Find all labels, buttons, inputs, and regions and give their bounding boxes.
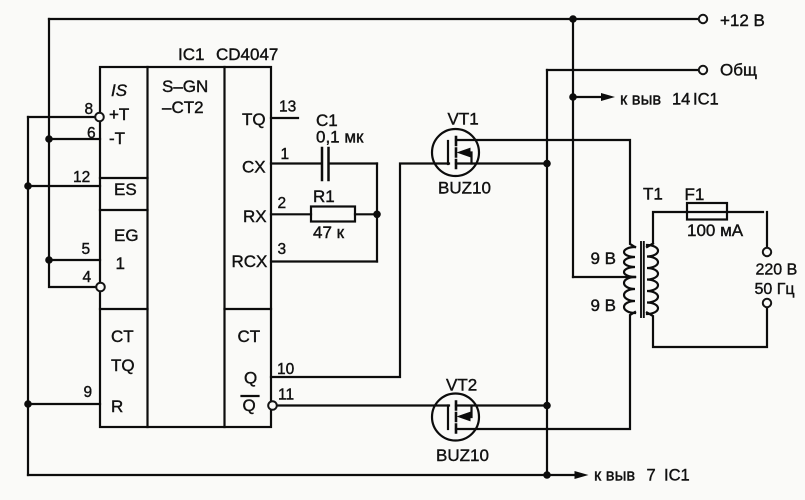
junction node pin14 arrow	[569, 93, 577, 101]
transformer T1 secondary winding	[647, 245, 658, 314]
wire pin 11 to VT2 gate	[277, 404, 450, 406]
svg-text:RX: RX	[243, 207, 267, 226]
wire pin 1 to C1	[271, 162, 320, 164]
transformer T1 primary winding	[624, 247, 635, 313]
junction node pin 6	[45, 135, 53, 143]
junction VT1 source	[543, 160, 551, 168]
svg-text:CX: CX	[242, 158, 266, 177]
capacitor C1	[322, 148, 329, 180]
svg-text:1: 1	[116, 254, 125, 273]
pin 4 bubble	[96, 283, 105, 292]
svg-text:IC1: IC1	[664, 467, 690, 485]
wire pin 8	[28, 116, 96, 118]
arrowhead to pin 14	[601, 93, 615, 101]
junction VT2 source	[543, 402, 551, 410]
svg-text:3: 3	[278, 241, 287, 258]
svg-text:R1: R1	[313, 187, 335, 206]
wire pin 13 stub	[271, 117, 298, 119]
wire pin 9	[28, 403, 100, 405]
svg-text:+12 В: +12 В	[720, 11, 765, 30]
wire pin 12	[28, 185, 100, 187]
wire Obshch rail	[547, 69, 699, 71]
svg-text:-T: -T	[109, 129, 125, 148]
svg-text:14: 14	[672, 91, 690, 109]
svg-text:TQ: TQ	[242, 110, 266, 129]
svg-text:S–GN: S–GN	[162, 77, 208, 96]
wire +12V left drop to pins 6,5,4	[49, 19, 97, 287]
wire ground left bus	[27, 117, 29, 475]
svg-text:100 мА: 100 мА	[687, 221, 744, 240]
svg-text:IC1: IC1	[693, 91, 719, 109]
wire transformer center tap	[573, 276, 635, 278]
wire node A vertical	[376, 164, 378, 262]
svg-text:EG: EG	[114, 226, 139, 245]
svg-text:–CT2: –CT2	[162, 98, 204, 117]
svg-text:9 В: 9 В	[591, 249, 617, 268]
svg-text:13: 13	[279, 99, 296, 116]
svg-text:1: 1	[281, 146, 290, 163]
svg-text:VT1: VT1	[448, 110, 479, 129]
wire pin 5	[49, 259, 100, 261]
transistor VT2 arrow	[457, 412, 471, 422]
svg-text:T1: T1	[643, 185, 663, 204]
svg-text:BUZ10: BUZ10	[438, 179, 491, 198]
arrowhead to pin 7	[575, 471, 589, 479]
svg-text:Q: Q	[244, 369, 257, 388]
svg-text:0,1 мк: 0,1 мк	[316, 128, 364, 147]
terminal Obshch	[699, 66, 707, 74]
terminal output top	[763, 248, 771, 256]
IC1 CD4047 outline	[100, 67, 271, 427]
terminal +12V	[699, 15, 707, 23]
wire C1 to node A	[330, 162, 377, 164]
svg-text:IC1: IC1	[178, 45, 204, 64]
svg-text:к выв: к выв	[594, 467, 635, 485]
wire pin 2 to R1	[271, 213, 311, 215]
svg-text:к выв: к выв	[620, 91, 661, 109]
svg-text:7: 7	[647, 467, 656, 485]
svg-text:2: 2	[278, 195, 287, 212]
svg-text:CT: CT	[238, 327, 261, 346]
transistor VT1 body	[432, 129, 479, 176]
wire VT2 source to ground bus	[456, 404, 547, 406]
fuse F1	[687, 203, 727, 220]
wire ground bus center	[546, 70, 548, 475]
svg-text:6: 6	[87, 125, 96, 142]
wire VT1 drain to transformer top	[456, 140, 635, 247]
wire pin 6	[49, 138, 100, 140]
svg-text:5: 5	[82, 241, 91, 258]
wire pin 3 to node A	[271, 260, 377, 262]
wire arrow to pin 14	[573, 96, 603, 98]
svg-text:ES: ES	[114, 180, 137, 199]
wire fuse to top output terminal	[766, 212, 768, 248]
label Q-bar overline	[242, 395, 259, 397]
wire VT2 drain to transformer bottom	[456, 312, 635, 429]
terminal output bottom	[763, 299, 771, 307]
wire R1 to node A	[355, 213, 377, 215]
wire VT1 source to ground bus	[456, 162, 547, 164]
junction node pin 5	[45, 256, 53, 264]
wire bottom ground rail	[28, 474, 576, 476]
svg-text:50 Гц: 50 Гц	[755, 281, 795, 298]
svg-text:9 В: 9 В	[591, 296, 617, 315]
svg-text:F1: F1	[685, 185, 705, 204]
transformer T1 core	[641, 242, 644, 317]
pin 11 bubble	[268, 401, 277, 410]
svg-text:10: 10	[277, 361, 295, 378]
junction node pin 12	[24, 182, 32, 190]
svg-text:8: 8	[85, 101, 94, 118]
wire +12V center drop	[572, 19, 574, 277]
wire secondary top to fuse	[647, 212, 763, 247]
svg-text:IS: IS	[111, 81, 128, 100]
junction node top drop	[569, 15, 577, 23]
wire pin 10 to VT1 gate	[271, 164, 449, 378]
svg-text:CT: CT	[111, 327, 134, 346]
junction node A	[373, 211, 381, 219]
svg-text:11: 11	[278, 387, 294, 404]
svg-text:+T: +T	[109, 105, 129, 124]
svg-text:VT2: VT2	[446, 376, 477, 395]
svg-text:TQ: TQ	[111, 356, 135, 375]
wire bottom output terminal to secondary bottom	[647, 307, 767, 347]
svg-text:CD4047: CD4047	[216, 45, 278, 64]
svg-text:R: R	[111, 397, 123, 416]
resistor R1	[311, 207, 355, 222]
junction bottom rail	[543, 471, 551, 479]
transistor VT2 body	[432, 394, 479, 441]
svg-text:47 к: 47 к	[313, 223, 345, 242]
transistor VT1 arrow	[457, 148, 471, 158]
svg-text:BUZ10: BUZ10	[436, 446, 489, 465]
svg-text:12: 12	[73, 169, 90, 186]
junction node pin 9	[24, 400, 32, 408]
svg-text:RCX: RCX	[232, 252, 268, 271]
svg-text:9: 9	[84, 384, 93, 401]
svg-text:4: 4	[83, 269, 92, 286]
svg-text:Q: Q	[243, 396, 256, 415]
wire +12V top rail	[49, 18, 699, 20]
pin 8 bubble	[95, 113, 104, 122]
svg-text:220 В: 220 В	[756, 262, 798, 279]
svg-text:Общ: Общ	[720, 61, 757, 80]
